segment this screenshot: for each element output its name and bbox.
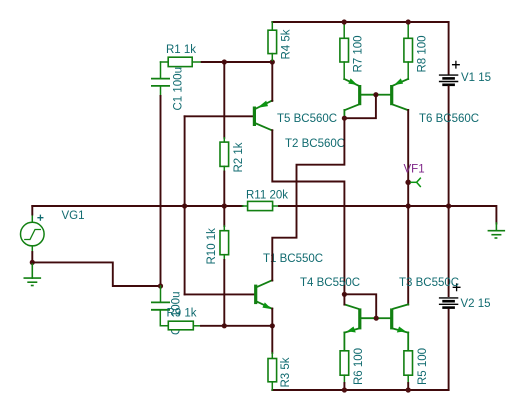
label VG1 plus sign: [38, 215, 43, 220]
svg-text:R9 1k: R9 1k: [167, 308, 197, 320]
generator VG1: [21, 214, 45, 253]
wire supply midpoint to ground: [449, 206, 497, 224]
resistor R5: [404, 351, 413, 375]
junction T3-T4 base node: [374, 316, 379, 321]
junction R1-R2 node: [222, 59, 227, 64]
svg-text:R8 100: R8 100: [417, 35, 429, 72]
junction T1 emitter node: [270, 323, 275, 328]
junction input node: [182, 203, 187, 208]
wire V2 minus down to bottom rail: [448, 309, 450, 390]
wire T1 collector up jog to mirror base link: [272, 118, 344, 280]
transistor T3: [376, 304, 408, 350]
wire T1 base: [185, 293, 255, 295]
svg-text:R10 1k: R10 1k: [206, 228, 218, 265]
wire V1 minus to mid node: [448, 87, 450, 207]
wire R2 node down to R10: [223, 206, 225, 226]
wire R6 to bottom rail: [343, 383, 345, 390]
junction T4 collector node: [342, 292, 347, 297]
svg-text:V2 15: V2 15: [461, 298, 491, 310]
wire T5 base vertical input column: [184, 116, 186, 294]
junction VF1 output node: [406, 203, 411, 208]
resistor R8: [407, 22, 409, 38]
voltage pin VF1: [405, 180, 411, 186]
transistor T5: [253, 101, 272, 131]
ground right: [488, 223, 504, 238]
resistor R11: [243, 205, 248, 207]
junction V1-V2 midpoint: [446, 203, 451, 208]
wire C1 bottom to C2 node: [160, 96, 162, 286]
svg-text:VF1: VF1: [404, 164, 425, 176]
wire T5 base: [185, 115, 253, 117]
arrow T4 emitter: [347, 327, 356, 333]
wire mid node to V2 plus: [448, 206, 450, 296]
capacitor C1: [152, 62, 169, 96]
resistor R10: [223, 226, 225, 231]
wire R1 to T5 emitter node: [202, 61, 273, 63]
wire VG1 top to input net: [31, 206, 33, 215]
capacitor C2: [152, 286, 169, 326]
wire T2-T6 bases to T2 collector: [344, 95, 376, 119]
wire R2 to mid node: [223, 172, 225, 207]
wire T4 collector to T3-T4 bases: [344, 294, 376, 318]
wire VG1 ground node to C2 node: [32, 262, 160, 286]
svg-text:R7 100: R7 100: [353, 35, 365, 72]
junction R9-R10 node: [222, 323, 227, 328]
wire T1 emitter node to R3: [271, 326, 273, 353]
wire R5 to bottom rail: [407, 383, 409, 390]
junction T2-T6 base node: [373, 92, 378, 97]
resistor R9: [168, 321, 193, 330]
wire output column to T3 collector: [407, 206, 409, 305]
resistor R1: [161, 61, 169, 63]
resistor R3: [271, 353, 273, 359]
wire R10 to R9 node: [223, 260, 225, 326]
svg-text:R1 1k: R1 1k: [166, 44, 196, 56]
transistor T6: [376, 79, 408, 110]
svg-text:R6 100: R6 100: [353, 348, 365, 385]
junction R6 bottom rail: [342, 387, 347, 392]
transistor T4: [344, 304, 376, 350]
wire VG1 bottom to ground node: [31, 252, 33, 262]
wire T1 emitter down: [271, 309, 273, 326]
arrow T1 emitter: [262, 302, 271, 309]
svg-text:T4 BC550C: T4 BC550C: [300, 277, 360, 289]
svg-text:T2 BC560C: T2 BC560C: [285, 138, 345, 150]
wire R1 node down to R2: [223, 62, 225, 138]
junction VG1 ground node: [30, 260, 35, 265]
svg-text:R4 5k: R4 5k: [281, 29, 293, 59]
svg-text:T5 BC560C: T5 BC560C: [277, 113, 337, 125]
arrow T5 emitter: [257, 101, 268, 108]
transistor T2: [344, 79, 376, 116]
transistor T1: [254, 280, 272, 309]
svg-text:C1 100u: C1 100u: [173, 67, 185, 110]
junction T2 collector node: [342, 116, 347, 121]
svg-text:R3 5k: R3 5k: [280, 357, 292, 387]
wire R11 to VF1 node: [279, 205, 449, 207]
arrow T3 emitter: [397, 327, 406, 333]
resistor R7: [343, 22, 345, 38]
junction R7 top rail: [342, 19, 347, 24]
resistor R4: [271, 22, 273, 30]
junction C1-C2-VG1 node: [158, 283, 163, 288]
junction R4-T5 emitter node: [270, 59, 275, 64]
junction R2-R10-R11 node: [222, 203, 227, 208]
junction R5 bottom rail: [406, 387, 411, 392]
wire top supply rail: [272, 21, 448, 23]
ground VG1: [24, 262, 40, 285]
arrow T6 emitter: [394, 78, 403, 85]
svg-text:T6 BC560C: T6 BC560C: [419, 113, 479, 125]
wire R9 to T1 emitter node: [201, 325, 272, 327]
junction R8 top rail: [406, 19, 411, 24]
wire input net horizontal VG1 to R11: [32, 205, 242, 207]
svg-text:R2 1k: R2 1k: [233, 142, 245, 172]
svg-text:T3 BC550C: T3 BC550C: [399, 277, 459, 289]
svg-text:VG1: VG1: [62, 210, 85, 222]
resistor R2: [223, 138, 225, 142]
svg-text:R5 100: R5 100: [417, 348, 429, 385]
resistor R6: [340, 351, 349, 375]
wire V1 top lead: [448, 22, 450, 74]
wire T4 collector up stub: [343, 294, 345, 304]
wire T5 emitter up to R4 node: [271, 62, 273, 101]
arrow T2 emitter: [348, 78, 357, 85]
svg-text:R11 20k: R11 20k: [246, 190, 288, 202]
battery V1: [440, 61, 460, 84]
wire T6 collector down to output column: [407, 110, 409, 206]
svg-text:V1 15: V1 15: [461, 72, 491, 84]
wire T5 collector to T4 mirror node: [272, 130, 344, 294]
battery V2: [440, 284, 460, 308]
wire bottom rail: [272, 389, 448, 391]
